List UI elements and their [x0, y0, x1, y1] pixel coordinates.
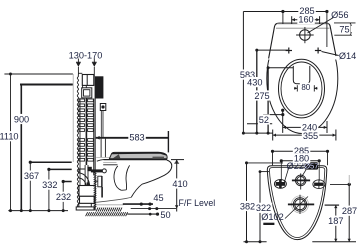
outlet elbow pipe [78, 173, 90, 188]
dim 180 [280, 159, 321, 181]
label 232 [55, 192, 73, 202]
dim 232 horizontal [62, 180, 72, 183]
svg-text:130-170: 130-170 [69, 50, 103, 60]
underside outline inner [269, 168, 324, 238]
dim 900 vertical [20, 85, 23, 213]
frame ladder rungs [79, 99, 93, 161]
label 410 [171, 178, 189, 188]
label 900 [13, 114, 31, 124]
elbow fixing (black) [87, 182, 90, 185]
svg-text:900: 900 [14, 114, 29, 124]
label 52 [258, 114, 270, 124]
spud hole circle O56 [296, 27, 314, 43]
svg-text:382: 382 [240, 201, 255, 211]
svg-text:355: 355 [303, 131, 318, 141]
frame right rail [93, 99, 95, 176]
underside baseline right [312, 241, 356, 243]
svg-text:1110: 1110 [0, 132, 19, 142]
dim 430 vertical [255, 49, 288, 134]
label 332 [41, 180, 59, 190]
dim 275 vertical [267, 66, 294, 133]
dim 187 vertical [325, 205, 340, 242]
bowl outer profile [96, 160, 171, 202]
dim 583 extension [167, 131, 169, 152]
F/F level line [131, 207, 177, 210]
plan bowl egg outline [267, 24, 338, 134]
pad left [274, 180, 286, 189]
dim 1110 horizontal [4, 73, 73, 75]
bowl back edge [101, 176, 103, 198]
plan seat ring outer [279, 59, 325, 118]
seat hinge posts [101, 139, 105, 158]
seat lid top edge [112, 153, 167, 155]
outlet crosshair [288, 195, 314, 214]
label O14 [339, 51, 356, 61]
svg-text:160: 160 [298, 14, 313, 24]
dim 80 ticks [294, 85, 318, 91]
dim 45 line [123, 203, 153, 206]
label 160 [297, 14, 315, 24]
frame top box B [78, 73, 94, 85]
svg-text:410: 410 [172, 179, 187, 189]
O22 leader [284, 169, 289, 185]
dim 75 vertical [349, 23, 352, 35]
frame mid rails [83, 85, 87, 87]
flush pipe [91, 169, 102, 172]
dim 1110 vertical [9, 73, 12, 213]
dim 410 bottom arrow [175, 205, 179, 208]
svg-text:287: 287 [342, 206, 357, 216]
svg-text:322: 322 [256, 203, 271, 213]
svg-text:180: 180 [294, 154, 309, 164]
bowl bottom gray line [96, 204, 124, 206]
svg-text:Ø102: Ø102 [261, 212, 283, 222]
frame box C [82, 88, 92, 98]
underside outline outer [267, 166, 327, 240]
130-170 left arrow [76, 59, 81, 76]
floor hatching row 2 [86, 212, 128, 216]
label 80 [300, 83, 312, 92]
O14 leader [322, 52, 339, 56]
dim 240 [281, 109, 327, 133]
dim 355 [273, 130, 336, 141]
outlet circle pair O102 [292, 196, 309, 213]
label O56 [331, 10, 348, 20]
label 430 [246, 77, 264, 87]
label 285 top [298, 5, 316, 15]
frame foot upper box [79, 186, 95, 197]
frame lower fixing (black) [87, 167, 91, 171]
svg-text:367: 367 [24, 171, 39, 181]
dim 285 top line [243, 10, 328, 13]
svg-text:275: 275 [254, 91, 269, 101]
fixing cross right [315, 48, 321, 54]
seat lid [109, 152, 167, 158]
wall finish hatching [94, 171, 97, 208]
dim 410 top tick [171, 160, 184, 164]
pad right [313, 180, 325, 189]
label 355 [302, 131, 320, 141]
svg-text:Ø56: Ø56 [331, 10, 348, 20]
cistern (black) [95, 76, 104, 98]
label 187 [327, 216, 345, 226]
bowl back ledge [103, 162, 117, 164]
dim 232 vertical [62, 182, 65, 213]
bowl channel bottom hook [121, 189, 126, 191]
dim 367 horizontal [29, 161, 72, 164]
water inlet stub [78, 169, 85, 173]
fixing cross left [286, 48, 292, 54]
dim 410 vertical [176, 160, 178, 212]
fixing bolt rods [101, 111, 103, 138]
dim 583 plan vertical [242, 12, 244, 134]
dim 382 vertical [245, 161, 283, 243]
dim 160 line [292, 16, 320, 24]
wall face line [94, 99, 96, 211]
svg-text:75: 75 [339, 25, 349, 35]
label 367 [23, 171, 41, 181]
label O102 [261, 212, 283, 225]
label 45 [153, 193, 163, 203]
label 240 [301, 122, 319, 132]
inlet crosshair [292, 173, 310, 189]
label 322 [255, 203, 272, 213]
label 50 [160, 210, 170, 220]
dim 332 horizontal [47, 168, 71, 171]
frame foot plate [79, 203, 92, 207]
svg-text:187: 187 [328, 216, 343, 226]
plan flush distributor box [293, 66, 310, 84]
bowl inner channel right [126, 165, 130, 190]
dim 900 horizontal [20, 84, 73, 86]
label O57 on black box [304, 162, 318, 171]
frame center rail [85, 98, 88, 186]
plan tank body fill [268, 23, 337, 59]
plan tank lid band [276, 24, 330, 28]
svg-text:332: 332 [42, 180, 57, 190]
dim 322 vertical [259, 170, 270, 243]
label 275 [253, 90, 270, 100]
svg-text:583: 583 [129, 133, 144, 143]
plan seat ring inner [281, 62, 322, 115]
seat lid dark right [153, 157, 165, 159]
bowl back top curve [97, 160, 104, 162]
frame left rail [79, 98, 81, 185]
dim 50 line [127, 213, 159, 216]
label 75 [339, 24, 351, 34]
frame foot lower box [80, 196, 95, 203]
label 1110 [0, 131, 20, 141]
seat underside gray line [96, 157, 112, 159]
frame base plate [76, 207, 94, 210]
svg-text:Ø14: Ø14 [339, 51, 356, 61]
inlet circle pair [295, 175, 306, 186]
label 287 [341, 206, 359, 216]
label 382 [239, 201, 256, 211]
extension line x73 [72, 74, 74, 162]
plan bottom connector [242, 132, 273, 135]
plan tank outline [269, 23, 336, 58]
label O22 [287, 161, 304, 171]
wall break line (structural wall) [77, 75, 78, 207]
label 285 bottom [293, 145, 311, 155]
dim 332 vertical [47, 169, 50, 212]
dim 367 vertical [29, 162, 32, 212]
label 180 [293, 153, 311, 163]
svg-text:430: 430 [247, 77, 262, 87]
dim 287 vertical [330, 183, 351, 242]
floor hatching row 1 [96, 208, 122, 212]
dimension baseline (F/F) [8, 210, 68, 212]
fixing bolt head [100, 104, 106, 111]
ext 287 gray [348, 175, 350, 184]
dim 285 ext lines [283, 12, 327, 48]
dim 285 bottom [271, 150, 329, 166]
bowl inner channel left [114, 166, 121, 190]
F/F Level text [179, 198, 216, 208]
O57 leader [302, 170, 307, 177]
dim 52 [247, 113, 284, 124]
bowl rim line [104, 159, 168, 161]
flush pipe outlet circle [102, 169, 106, 173]
svg-text:52: 52 [259, 115, 269, 125]
label 583 plan [239, 70, 256, 80]
O56 leader [308, 18, 334, 33]
label 583 [128, 132, 146, 142]
svg-text:232: 232 [56, 192, 71, 202]
underside baseline left [244, 241, 267, 243]
svg-text:80: 80 [301, 83, 310, 92]
O102 leader [285, 197, 308, 219]
seat lid dark left [112, 154, 120, 158]
130-170 right arrow [92, 59, 97, 77]
dim 583 line [96, 136, 169, 140]
bowl mounting boss [96, 176, 102, 187]
130-170 label [69, 50, 103, 60]
svg-text:45: 45 [153, 193, 163, 203]
dim 75 ticks [334, 23, 356, 35]
svg-text:50: 50 [160, 210, 170, 220]
svg-text:F/F Level: F/F Level [179, 198, 216, 208]
